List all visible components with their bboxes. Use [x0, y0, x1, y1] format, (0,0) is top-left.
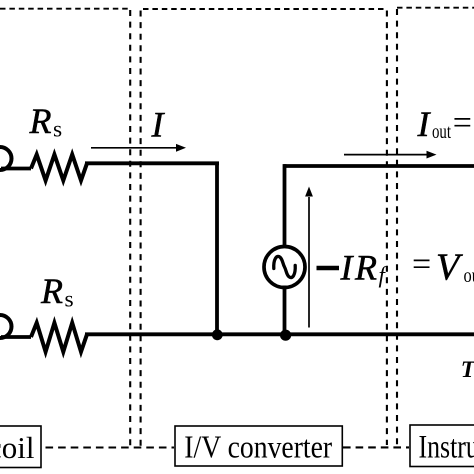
- node B junction dot: [280, 330, 291, 341]
- label box: coil (cut off at left edge): [0, 426, 41, 468]
- svg-text:I: I: [417, 104, 432, 144]
- coil partial loop (top, cut by left edge): [0, 147, 12, 170]
- dashed block: instrumentation amplifier left edge: [396, 9, 398, 445]
- svg-text:V: V: [436, 247, 463, 289]
- svg-text:=: =: [412, 246, 431, 283]
- svg-text:R: R: [354, 248, 377, 288]
- svg-text:out: out: [432, 121, 451, 143]
- wire: bottom-left lead: [1, 335, 31, 339]
- resistor Rs (top): [31, 155, 87, 181]
- wire: top-right rail: [284, 164, 474, 168]
- voltage arrow (up) for IR_f: [308, 197, 310, 328]
- label box: instrumentation amplifier (cut off at right edge): [410, 425, 474, 467]
- dashed block: I/V converter top edge: [143, 8, 387, 10]
- dashed block: instrumentation amplifier top edge: [397, 7, 474, 9]
- svg-text:Instrumentation amplifier: Instrumentation amplifier: [419, 430, 474, 466]
- svg-text:=: =: [453, 105, 472, 142]
- label -IR_f: [317, 266, 340, 271]
- svg-text:s: s: [53, 117, 62, 143]
- dashed block: I/V converter right edge: [386, 11, 388, 446]
- svg-text:I/V converter: I/V converter: [184, 429, 332, 465]
- svg-text:out: out: [464, 265, 474, 287]
- wire: from source bottom to node B: [283, 286, 287, 337]
- wire: top wire from Rs to node A: [85, 161, 219, 165]
- svg-text:R: R: [29, 101, 52, 141]
- coil partial loop (bottom, cut by left edge): [0, 315, 12, 338]
- svg-text:s: s: [65, 287, 74, 313]
- node A junction dot: [212, 329, 223, 340]
- resistor Rs (bottom): [31, 323, 87, 352]
- dashed bottom edge between I/V converter and instrumentation amplifier label boxes: [343, 446, 409, 448]
- wire: vertical from top-right rail down to source top: [283, 164, 287, 249]
- dashed block: I/V converter left edge: [140, 11, 142, 447]
- wire: bottom rail: [85, 332, 474, 336]
- svg-text:T: T: [461, 357, 474, 383]
- dashed block: coil right edge: [129, 10, 131, 446]
- dashed block: coil (left, cut off) top edge: [0, 8, 130, 10]
- wire: top-left lead: [1, 167, 31, 171]
- svg-text:I: I: [340, 248, 355, 288]
- wire: vertical from top wire down to node A: [215, 163, 219, 336]
- label box: I/V converter: [175, 426, 342, 466]
- source V1 (sine/current source) circle: [264, 247, 305, 288]
- svg-text:R: R: [40, 271, 63, 311]
- dashed bottom edge between coil and I/V converter label boxes: [46, 446, 175, 448]
- svg-text:coil: coil: [0, 430, 35, 465]
- svg-text:I: I: [151, 105, 166, 145]
- current arrow I_out: [344, 154, 429, 156]
- source V1 sine glyph: [274, 256, 296, 277]
- current arrow I: [91, 147, 176, 149]
